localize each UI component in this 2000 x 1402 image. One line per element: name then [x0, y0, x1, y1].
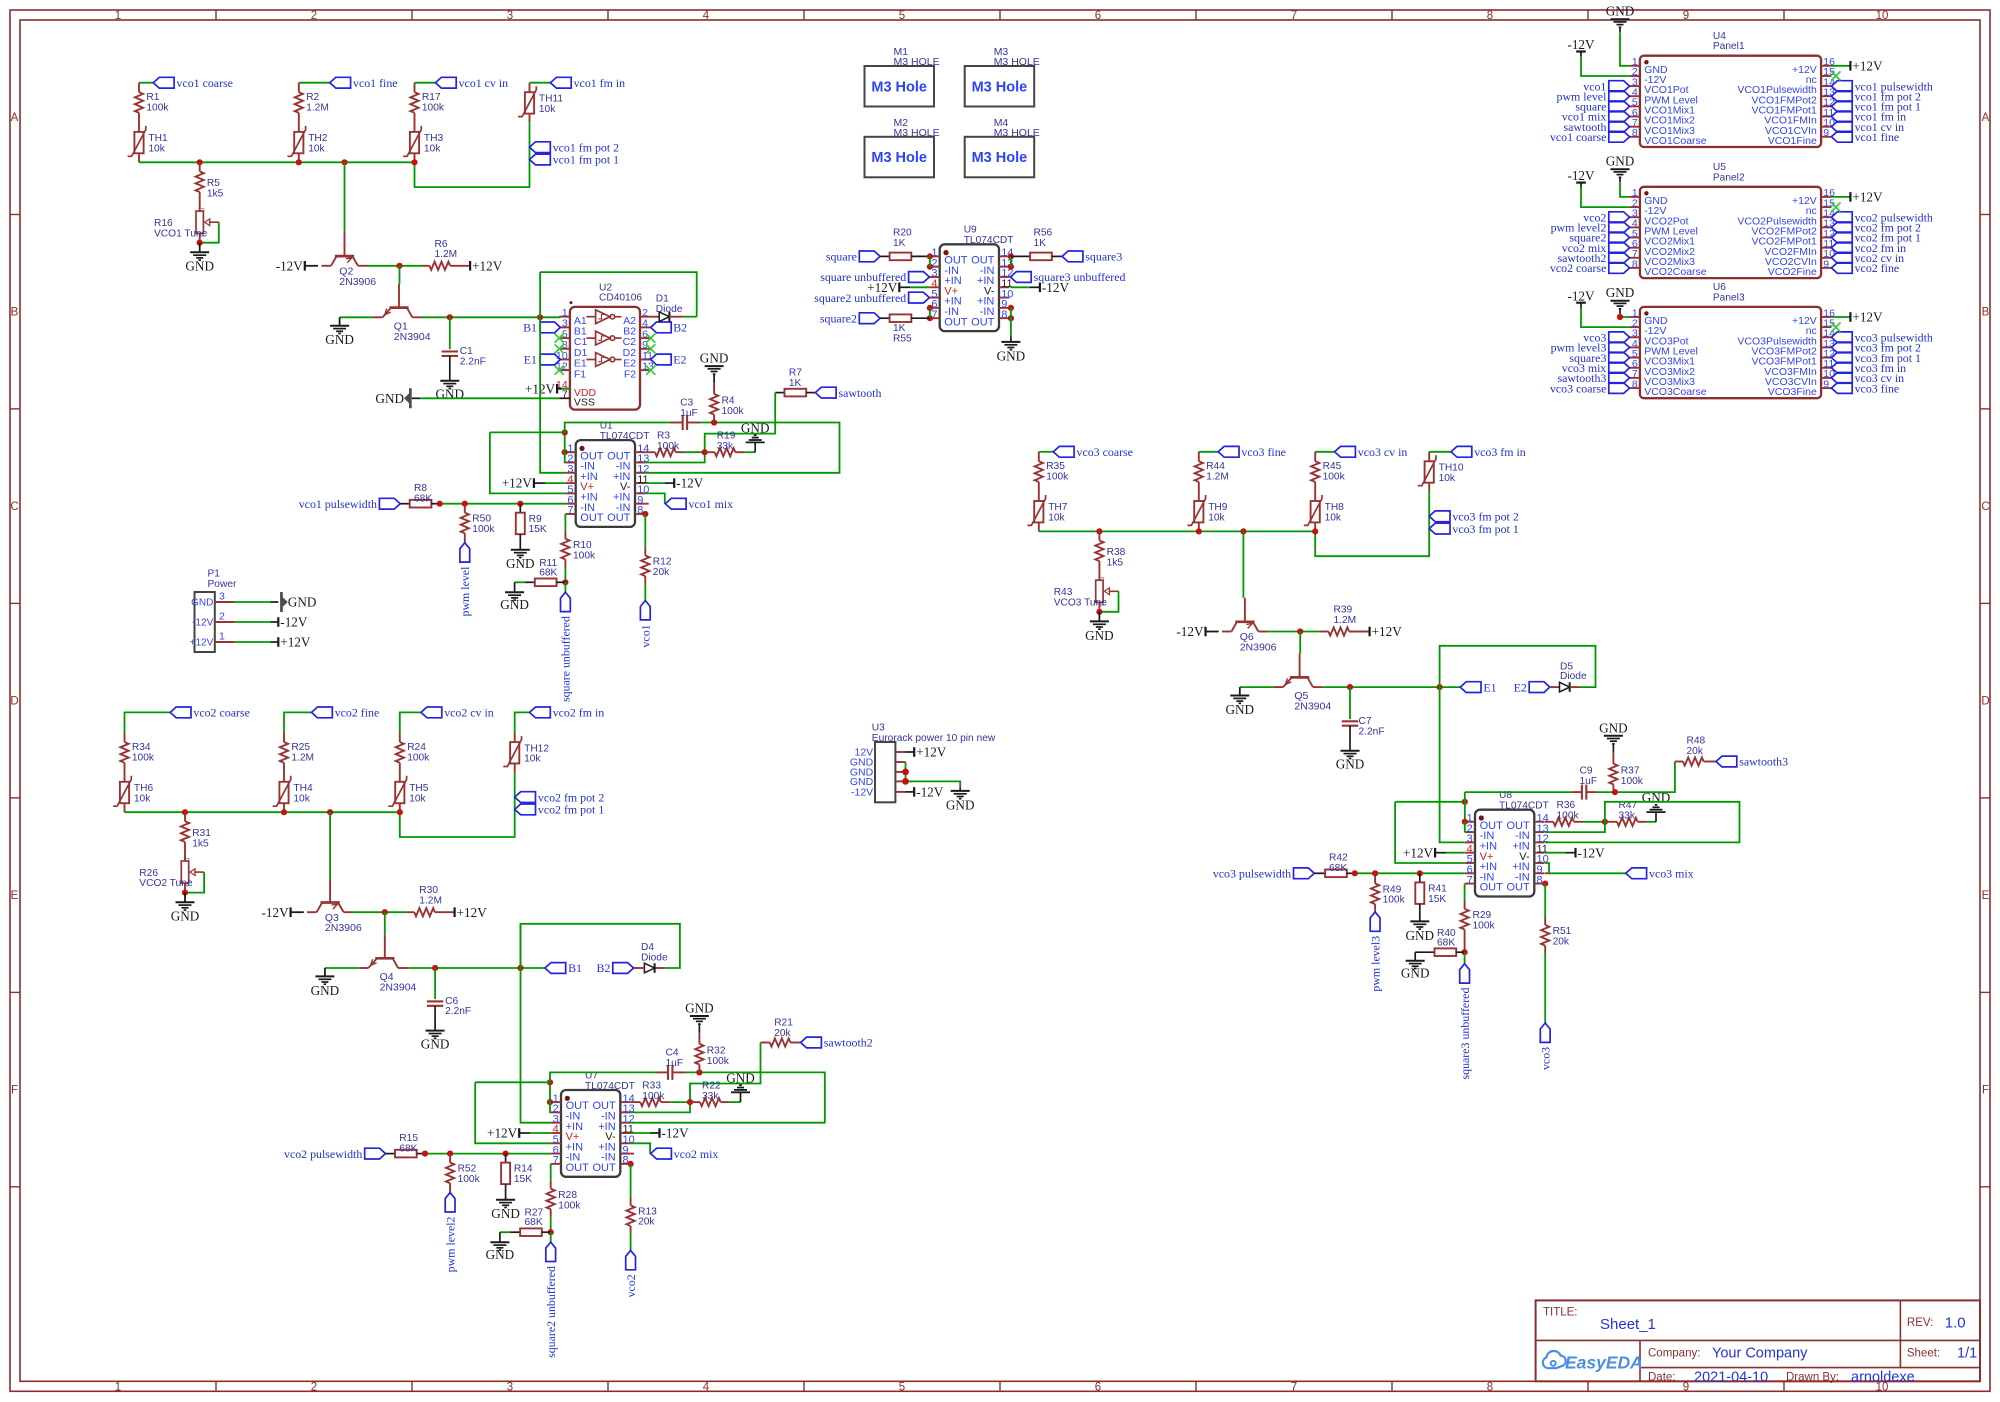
- svg-text:R38: R38: [1107, 547, 1126, 558]
- svg-text:OUT: OUT: [1480, 882, 1504, 894]
- svg-text:1k5: 1k5: [1107, 558, 1124, 569]
- svg-text:1k5: 1k5: [192, 838, 209, 849]
- svg-text:-12V: -12V: [1176, 624, 1204, 639]
- svg-text:Diode: Diode: [641, 952, 668, 963]
- svg-text:R32: R32: [707, 1045, 726, 1056]
- svg-text:R34: R34: [132, 742, 151, 753]
- svg-text:B1: B1: [568, 961, 582, 975]
- svg-text:1k5: 1k5: [207, 188, 224, 199]
- svg-text:B: B: [11, 307, 19, 319]
- svg-text:TH11: TH11: [539, 93, 563, 104]
- svg-text:C: C: [1981, 501, 1989, 513]
- svg-text:D1: D1: [656, 293, 669, 304]
- svg-text:15K: 15K: [514, 1174, 532, 1185]
- svg-text:E2: E2: [673, 353, 686, 367]
- svg-text:2: 2: [311, 10, 317, 22]
- svg-text:VCO1Coarse: VCO1Coarse: [1644, 135, 1707, 147]
- svg-text:VCO2Coarse: VCO2Coarse: [1644, 266, 1707, 278]
- svg-text:GND: GND: [685, 1001, 714, 1016]
- svg-text:GND: GND: [486, 1247, 515, 1262]
- svg-text:D: D: [10, 696, 18, 708]
- svg-text:R2: R2: [306, 92, 319, 103]
- svg-text:R43: R43: [1054, 587, 1073, 598]
- svg-text:R12: R12: [653, 556, 672, 567]
- svg-text:sawtooth: sawtooth: [839, 386, 882, 400]
- svg-text:+12V: +12V: [1852, 310, 1883, 325]
- svg-text:vco2 coarse: vco2 coarse: [193, 706, 249, 720]
- svg-text:Sheet:: Sheet:: [1907, 1348, 1940, 1360]
- svg-text:GND: GND: [491, 1206, 520, 1221]
- svg-text:GND: GND: [191, 598, 213, 609]
- svg-text:Company:: Company:: [1648, 1348, 1700, 1360]
- svg-text:33k: 33k: [717, 441, 734, 452]
- svg-text:square2 unbuffered: square2 unbuffered: [544, 1266, 558, 1358]
- svg-text:-12V: -12V: [676, 476, 704, 491]
- svg-text:Date:: Date:: [1648, 1372, 1676, 1384]
- svg-text:square unbuffered: square unbuffered: [559, 616, 573, 702]
- svg-text:U4: U4: [1713, 31, 1726, 42]
- svg-text:VCO3Fine: VCO3Fine: [1768, 386, 1817, 398]
- svg-text:square2 unbuffered: square2 unbuffered: [814, 291, 906, 305]
- svg-text:R36: R36: [1557, 800, 1576, 811]
- svg-text:B2: B2: [597, 961, 611, 975]
- svg-text:vco3 pulsewidth: vco3 pulsewidth: [1213, 866, 1291, 880]
- svg-text:VCO2Fine: VCO2Fine: [1768, 266, 1817, 278]
- svg-text:10k: 10k: [293, 793, 310, 804]
- svg-text:-12V: -12V: [1567, 37, 1595, 52]
- svg-text:vco1 pulsewidth: vco1 pulsewidth: [299, 497, 377, 511]
- svg-text:VSS: VSS: [574, 396, 595, 408]
- svg-text:-12V: -12V: [1567, 168, 1595, 183]
- svg-text:GND: GND: [1085, 628, 1114, 643]
- svg-text:E1: E1: [1483, 680, 1496, 694]
- svg-text:GND: GND: [1336, 757, 1365, 772]
- svg-text:68K: 68K: [1329, 863, 1347, 874]
- svg-text:GND: GND: [375, 391, 404, 406]
- svg-text:GND: GND: [1606, 4, 1635, 19]
- svg-text:2N3906: 2N3906: [325, 922, 362, 934]
- svg-text:R24: R24: [407, 742, 426, 753]
- svg-text:GND: GND: [436, 387, 465, 402]
- svg-text:-12V: -12V: [280, 615, 308, 630]
- svg-text:100k: 100k: [558, 1200, 581, 1211]
- svg-text:U9: U9: [964, 225, 977, 236]
- svg-text:vco1 cv in: vco1 cv in: [459, 76, 509, 90]
- svg-text:R45: R45: [1323, 461, 1342, 472]
- svg-text:vco3 coarse: vco3 coarse: [1550, 381, 1606, 395]
- svg-text:4: 4: [703, 1381, 710, 1393]
- svg-text:2: 2: [311, 1381, 317, 1393]
- svg-text:1K: 1K: [893, 323, 906, 334]
- svg-text:-12V: -12V: [261, 905, 289, 920]
- svg-text:vco1: vco1: [639, 624, 653, 647]
- svg-text:10k: 10k: [539, 104, 556, 115]
- svg-text:Panel1: Panel1: [1713, 41, 1745, 52]
- svg-text:TH5: TH5: [409, 783, 429, 794]
- svg-text:100k: 100k: [1323, 472, 1346, 483]
- svg-text:R28: R28: [558, 1190, 577, 1201]
- svg-text:GND: GND: [1406, 928, 1435, 943]
- svg-text:TH2: TH2: [308, 133, 328, 144]
- svg-text:F2: F2: [624, 368, 636, 380]
- svg-text:M3 HOLE: M3 HOLE: [994, 56, 1040, 68]
- svg-text:10k: 10k: [134, 793, 151, 804]
- svg-text:C9: C9: [1580, 765, 1593, 776]
- svg-text:10k: 10k: [424, 143, 441, 154]
- svg-text:R50: R50: [472, 513, 491, 524]
- svg-text:GND: GND: [1599, 720, 1628, 735]
- svg-text:-12V: -12V: [851, 787, 873, 799]
- svg-text:OUT: OUT: [607, 512, 631, 524]
- svg-text:R16: R16: [154, 218, 173, 229]
- svg-text:1uF: 1uF: [1580, 776, 1598, 787]
- svg-text:R33: R33: [642, 1080, 661, 1091]
- svg-text:100k: 100k: [422, 102, 445, 113]
- svg-text:Eurorack power 10 pin new: Eurorack power 10 pin new: [872, 733, 996, 744]
- svg-text:vco3 fine: vco3 fine: [1855, 381, 1900, 395]
- svg-text:A: A: [11, 112, 19, 124]
- svg-text:R44: R44: [1206, 461, 1225, 472]
- svg-text:R41: R41: [1428, 883, 1447, 894]
- svg-text:M3 Hole: M3 Hole: [972, 150, 1028, 166]
- svg-text:Drawn By:: Drawn By:: [1786, 1372, 1839, 1384]
- svg-text:15K: 15K: [529, 524, 547, 535]
- svg-text:Panel3: Panel3: [1713, 292, 1745, 303]
- svg-text:1K: 1K: [893, 238, 906, 249]
- svg-text:GND: GND: [311, 983, 340, 998]
- svg-text:TH4: TH4: [293, 783, 313, 794]
- svg-text:R8: R8: [414, 483, 427, 494]
- svg-text:100k: 100k: [1046, 472, 1069, 483]
- svg-text:3: 3: [219, 590, 225, 602]
- svg-text:EasyEDA: EasyEDA: [1565, 1353, 1643, 1373]
- svg-text:vco2 fine: vco2 fine: [335, 706, 380, 720]
- svg-text:TL074CDT: TL074CDT: [585, 1081, 635, 1092]
- svg-text:68K: 68K: [414, 493, 432, 504]
- svg-text:R6: R6: [435, 239, 448, 250]
- svg-text:R29: R29: [1473, 910, 1492, 921]
- svg-text:OUT: OUT: [1506, 882, 1530, 894]
- svg-text:+12V: +12V: [472, 258, 503, 273]
- svg-text:1uF: 1uF: [666, 1058, 684, 1069]
- svg-text:sawtooth2: sawtooth2: [824, 1036, 873, 1050]
- svg-text:1K: 1K: [789, 378, 802, 389]
- svg-text:100k: 100k: [458, 1174, 481, 1185]
- svg-text:100k: 100k: [642, 1091, 665, 1102]
- svg-text:M3 Hole: M3 Hole: [972, 79, 1028, 95]
- svg-text:vco1 mix: vco1 mix: [689, 497, 734, 511]
- svg-text:vco3 cv in: vco3 cv in: [1358, 445, 1408, 459]
- svg-text:vco3 fm in: vco3 fm in: [1474, 445, 1526, 459]
- svg-text:1.2M: 1.2M: [1334, 615, 1357, 626]
- svg-text:20k: 20k: [638, 1217, 655, 1228]
- svg-text:vco2: vco2: [624, 1274, 638, 1297]
- svg-text:Sheet_1: Sheet_1: [1600, 1316, 1656, 1333]
- svg-text:R3: R3: [657, 430, 670, 441]
- svg-text:1/1: 1/1: [1957, 1346, 1977, 1362]
- svg-text:10k: 10k: [1048, 513, 1065, 524]
- svg-text:2: 2: [219, 610, 225, 622]
- svg-text:100k: 100k: [573, 551, 596, 562]
- svg-text:5: 5: [899, 1381, 905, 1393]
- svg-text:GND: GND: [1642, 790, 1671, 805]
- svg-text:R35: R35: [1046, 461, 1065, 472]
- svg-text:-12V: -12V: [916, 785, 944, 800]
- svg-text:E: E: [11, 890, 19, 902]
- svg-text:E2: E2: [1514, 680, 1527, 694]
- svg-text:TH9: TH9: [1208, 502, 1228, 513]
- svg-text:GND: GND: [185, 259, 214, 274]
- svg-text:R17: R17: [422, 92, 441, 103]
- svg-text:A: A: [1982, 112, 1990, 124]
- svg-text:R19: R19: [717, 430, 736, 441]
- svg-text:TH8: TH8: [1325, 502, 1345, 513]
- svg-text:U3: U3: [872, 722, 885, 733]
- svg-text:7: 7: [1291, 10, 1297, 22]
- svg-text:M3 HOLE: M3 HOLE: [894, 127, 940, 139]
- svg-text:M3 Hole: M3 Hole: [871, 150, 927, 166]
- svg-text:B: B: [1982, 307, 1990, 319]
- svg-text:vco1 fm pot 1: vco1 fm pot 1: [553, 153, 619, 167]
- svg-text:100k: 100k: [1473, 920, 1496, 931]
- svg-text:GND: GND: [506, 556, 535, 571]
- svg-text:M3 Hole: M3 Hole: [871, 79, 927, 95]
- svg-text:+12V: +12V: [1852, 58, 1883, 73]
- svg-text:vco3 fm pot 1: vco3 fm pot 1: [1452, 522, 1518, 536]
- svg-text:7: 7: [562, 389, 568, 401]
- svg-text:20k: 20k: [653, 567, 670, 578]
- svg-text:+12V: +12V: [502, 476, 533, 491]
- svg-text:9: 9: [1823, 258, 1829, 270]
- svg-text:R31: R31: [192, 828, 211, 839]
- svg-text:100k: 100k: [722, 406, 745, 417]
- svg-text:Power: Power: [208, 579, 237, 590]
- svg-text:1.0: 1.0: [1945, 1314, 1966, 1331]
- svg-text:-12V: -12V: [192, 618, 213, 629]
- svg-text:33k: 33k: [702, 1091, 719, 1102]
- svg-text:10k: 10k: [524, 754, 541, 765]
- svg-text:vco3 mix: vco3 mix: [1649, 866, 1694, 880]
- svg-text:OUT: OUT: [971, 316, 995, 328]
- svg-text:OUT: OUT: [580, 512, 604, 524]
- svg-text:7: 7: [1467, 874, 1473, 886]
- svg-text:2.2nF: 2.2nF: [460, 356, 486, 367]
- svg-text:+12V: +12V: [487, 1126, 518, 1141]
- svg-text:2N3904: 2N3904: [394, 331, 431, 343]
- svg-text:R7: R7: [789, 367, 802, 378]
- svg-text:vco2 pulsewidth: vco2 pulsewidth: [284, 1147, 362, 1161]
- svg-text:REV:: REV:: [1907, 1317, 1933, 1329]
- svg-text:M3 HOLE: M3 HOLE: [994, 127, 1040, 139]
- svg-text:R26: R26: [139, 868, 158, 879]
- svg-text:2N3904: 2N3904: [1294, 701, 1331, 713]
- svg-text:square: square: [826, 250, 857, 264]
- svg-text:1K: 1K: [1034, 238, 1047, 249]
- svg-text:100k: 100k: [657, 441, 680, 452]
- svg-text:+12V: +12V: [457, 905, 488, 920]
- svg-text:7: 7: [553, 1155, 559, 1167]
- svg-text:68K: 68K: [399, 1143, 417, 1154]
- svg-text:+12V: +12V: [916, 745, 947, 760]
- svg-text:vco2 cv in: vco2 cv in: [444, 706, 494, 720]
- svg-text:square3 unbuffered: square3 unbuffered: [1458, 988, 1472, 1080]
- svg-text:VCO1Fine: VCO1Fine: [1768, 135, 1817, 147]
- svg-text:vco1 fine: vco1 fine: [353, 76, 398, 90]
- svg-text:10k: 10k: [409, 793, 426, 804]
- svg-text:GND: GND: [171, 909, 200, 924]
- svg-text:E1: E1: [524, 353, 537, 367]
- svg-text:R9: R9: [529, 514, 542, 525]
- svg-text:+12V: +12V: [1403, 845, 1434, 860]
- svg-text:1.2M: 1.2M: [306, 102, 329, 113]
- svg-text:R25: R25: [291, 742, 310, 753]
- svg-text:10k: 10k: [1325, 513, 1342, 524]
- svg-text:GND: GND: [741, 420, 770, 435]
- svg-text:R56: R56: [1034, 227, 1053, 238]
- svg-text:100k: 100k: [707, 1056, 730, 1067]
- svg-text:GND: GND: [997, 348, 1026, 363]
- svg-text:GND: GND: [1226, 702, 1255, 717]
- svg-text:R30: R30: [419, 885, 438, 896]
- svg-text:3: 3: [507, 10, 513, 22]
- svg-text:8: 8: [1001, 309, 1007, 321]
- svg-text:vco3: vco3: [1539, 1047, 1553, 1070]
- svg-text:-12V: -12V: [662, 1126, 690, 1141]
- svg-text:8: 8: [1632, 378, 1638, 390]
- svg-text:GND: GND: [700, 351, 729, 366]
- svg-text:6: 6: [1095, 10, 1101, 22]
- svg-text:+12V: +12V: [1372, 624, 1403, 639]
- svg-text:33k: 33k: [1619, 811, 1636, 822]
- svg-text:100k: 100k: [1383, 895, 1406, 906]
- svg-text:1.2M: 1.2M: [419, 896, 442, 907]
- svg-text:square3: square3: [1085, 250, 1122, 264]
- svg-text:1: 1: [219, 630, 225, 642]
- svg-text:C1: C1: [460, 346, 473, 357]
- svg-text:100k: 100k: [132, 752, 155, 763]
- svg-text:GND: GND: [500, 597, 529, 612]
- svg-text:-12V: -12V: [276, 258, 304, 273]
- svg-text:100k: 100k: [1621, 776, 1644, 787]
- svg-text:R5: R5: [207, 178, 220, 189]
- svg-text:8: 8: [1487, 1381, 1493, 1393]
- svg-text:OUT: OUT: [944, 316, 968, 328]
- svg-text:100k: 100k: [472, 524, 495, 535]
- svg-text:GND: GND: [726, 1070, 755, 1085]
- svg-text:D: D: [1981, 696, 1989, 708]
- svg-text:TH7: TH7: [1048, 502, 1068, 513]
- svg-text:GND: GND: [288, 595, 317, 610]
- svg-text:R20: R20: [893, 227, 912, 238]
- svg-text:Diode: Diode: [656, 304, 683, 315]
- svg-text:2021-04-10: 2021-04-10: [1694, 1370, 1768, 1386]
- svg-text:2.2nF: 2.2nF: [445, 1006, 471, 1017]
- svg-text:R10: R10: [573, 540, 592, 551]
- svg-text:GND: GND: [421, 1036, 450, 1051]
- svg-text:2N3906: 2N3906: [339, 276, 376, 288]
- svg-text:1.2M: 1.2M: [1206, 472, 1229, 483]
- svg-text:8: 8: [1487, 10, 1493, 22]
- svg-text:100k: 100k: [146, 102, 169, 113]
- svg-text:arnoldexe: arnoldexe: [1851, 1370, 1915, 1386]
- svg-text:R22: R22: [702, 1080, 721, 1091]
- svg-text:C4: C4: [666, 1047, 679, 1058]
- svg-text:OUT: OUT: [592, 1162, 616, 1174]
- svg-text:20k: 20k: [1687, 746, 1704, 757]
- svg-text:10k: 10k: [148, 143, 165, 154]
- svg-text:vco1 fm in: vco1 fm in: [574, 76, 626, 90]
- svg-text:7: 7: [567, 505, 573, 517]
- svg-text:sawtooth3: sawtooth3: [1739, 755, 1788, 769]
- svg-text:D4: D4: [641, 942, 654, 953]
- svg-text:TH6: TH6: [134, 783, 154, 794]
- svg-text:+12V: +12V: [1852, 190, 1883, 205]
- svg-text:TH12: TH12: [524, 743, 549, 754]
- svg-text:vco1 coarse: vco1 coarse: [1550, 130, 1606, 144]
- svg-text:C7: C7: [1359, 716, 1372, 727]
- svg-text:6: 6: [1095, 1381, 1101, 1393]
- svg-text:vco1 fine: vco1 fine: [1855, 130, 1900, 144]
- svg-text:GND: GND: [325, 332, 354, 347]
- svg-text:R4: R4: [722, 395, 735, 406]
- svg-text:1.2M: 1.2M: [435, 249, 458, 260]
- svg-text:10k: 10k: [1208, 513, 1225, 524]
- svg-text:+12V: +12V: [190, 638, 214, 649]
- svg-text:TL074CDT: TL074CDT: [964, 235, 1014, 246]
- svg-text:TL074CDT: TL074CDT: [1499, 800, 1549, 811]
- svg-text:1.2M: 1.2M: [291, 752, 314, 763]
- svg-text:R51: R51: [1553, 926, 1572, 937]
- svg-text:20k: 20k: [774, 1028, 791, 1039]
- svg-text:M3 HOLE: M3 HOLE: [894, 56, 940, 68]
- svg-text:square2: square2: [820, 311, 857, 325]
- svg-text:7: 7: [1291, 1381, 1297, 1393]
- svg-text:Your Company: Your Company: [1712, 1346, 1808, 1362]
- svg-text:1: 1: [115, 1381, 121, 1393]
- svg-text:20k: 20k: [1553, 936, 1570, 947]
- svg-text:vco3 fine: vco3 fine: [1241, 445, 1286, 459]
- svg-text:15K: 15K: [1428, 894, 1446, 905]
- svg-text:R21: R21: [774, 1017, 793, 1028]
- svg-text:3: 3: [507, 1381, 513, 1393]
- svg-text:OUT: OUT: [566, 1162, 590, 1174]
- svg-text:9: 9: [1683, 10, 1689, 22]
- svg-text:vco2 fm in: vco2 fm in: [553, 706, 605, 720]
- svg-text:Panel2: Panel2: [1713, 172, 1745, 183]
- svg-text:CD40106: CD40106: [599, 293, 642, 304]
- svg-text:B1: B1: [523, 321, 537, 335]
- svg-text:R37: R37: [1621, 765, 1640, 776]
- svg-text:B2: B2: [673, 321, 687, 335]
- svg-text:R14: R14: [514, 1164, 533, 1175]
- svg-text:GND: GND: [1606, 285, 1635, 300]
- svg-text:C6: C6: [445, 996, 458, 1007]
- svg-text:TH10: TH10: [1439, 462, 1464, 473]
- svg-text:U6: U6: [1713, 282, 1726, 293]
- svg-text:VCO3Coarse: VCO3Coarse: [1644, 386, 1707, 398]
- svg-text:9: 9: [1823, 378, 1829, 390]
- svg-text:U5: U5: [1713, 162, 1726, 173]
- svg-text:5: 5: [899, 10, 905, 22]
- svg-text:9: 9: [1823, 127, 1829, 139]
- svg-text:pwm level3: pwm level3: [1368, 936, 1382, 992]
- svg-text:pwm level2: pwm level2: [443, 1216, 457, 1272]
- svg-text:100k: 100k: [407, 752, 430, 763]
- svg-text:10: 10: [1876, 10, 1889, 22]
- svg-text:R55: R55: [893, 333, 912, 344]
- svg-text:1: 1: [115, 10, 121, 22]
- svg-text:R1: R1: [146, 92, 159, 103]
